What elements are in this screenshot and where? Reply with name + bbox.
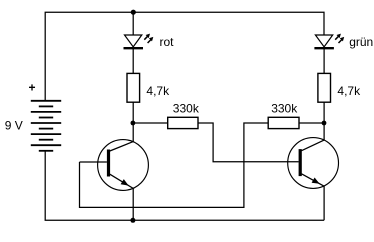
wire Q1 base cross-coupling to 330k-2 [80, 123, 269, 207]
transistor Q2 collector stroke [302, 140, 325, 151]
wire 330k-1 left lead [135, 122, 168, 124]
node top junction dot [131, 10, 136, 15]
LED D1 cathode bar [124, 47, 144, 49]
transistor Q2 emitter arrowhead [312, 178, 320, 184]
wire 330k-2 right lead [299, 122, 324, 124]
node collector junction dot right [322, 121, 327, 126]
wire Q1 emitter to bottom rail [132, 188, 134, 220]
svg-text:+: + [29, 81, 36, 95]
node collector junction dot left [131, 121, 136, 126]
resistor R2 4,7k body [318, 73, 331, 102]
LED D1 emission arrow 2 [148, 37, 154, 43]
svg-text:rot: rot [160, 35, 175, 49]
transistor Q1 base bar [107, 150, 110, 177]
wire LED2 cathode to R2 [323, 48, 325, 73]
wire LED1 cathode to R1 [132, 48, 134, 73]
LED D1 emission arrow 1 [144, 34, 150, 40]
transistor Q1 emitter stroke [110, 174, 133, 188]
svg-text:9 V: 9 V [5, 118, 23, 132]
transistor Q1 base wire [80, 161, 107, 163]
wire LED1 anode drop [132, 12, 134, 35]
wire 330k-1 right lead to Q2 base [198, 123, 299, 162]
wire R1 bottom to Q1 collector node [132, 102, 134, 141]
resistor R1 4,7k body [127, 73, 140, 102]
wire battery negative to bottom rail [45, 151, 324, 221]
transistor Q1 circle [98, 140, 149, 191]
wire Q2 emitter to bottom rail [323, 186, 325, 220]
LED D2 (gruen) triangle [315, 35, 332, 47]
LED D2 emission arrow 1 [335, 34, 341, 40]
LED D2 emission arrow 2 [339, 37, 345, 43]
transistor Q1 emitter arrowhead [121, 179, 129, 186]
transistor Q2 emitter stroke [302, 174, 325, 186]
svg-text:4,7k: 4,7k [337, 84, 361, 98]
transistor Q2 circle [288, 138, 339, 189]
wire R2 bottom to Q2 collector node [323, 102, 325, 140]
LED D2 cathode bar [314, 47, 334, 49]
LED D1 (rot) triangle [125, 35, 142, 47]
transistor Q1 collector stroke [110, 142, 133, 151]
svg-text:grün: grün [349, 35, 373, 49]
svg-text:330k: 330k [173, 102, 200, 116]
wire top rail with left and right verticals [45, 12, 324, 100]
battery B1 9V plates [31, 101, 61, 151]
svg-text:330k: 330k [271, 102, 298, 116]
svg-text:4,7k: 4,7k [146, 84, 170, 98]
node bottom junction dot [130, 218, 135, 223]
transistor Q2 base bar [299, 149, 302, 176]
resistor R4 330k body [268, 117, 299, 128]
resistor R3 330k body [168, 117, 198, 128]
